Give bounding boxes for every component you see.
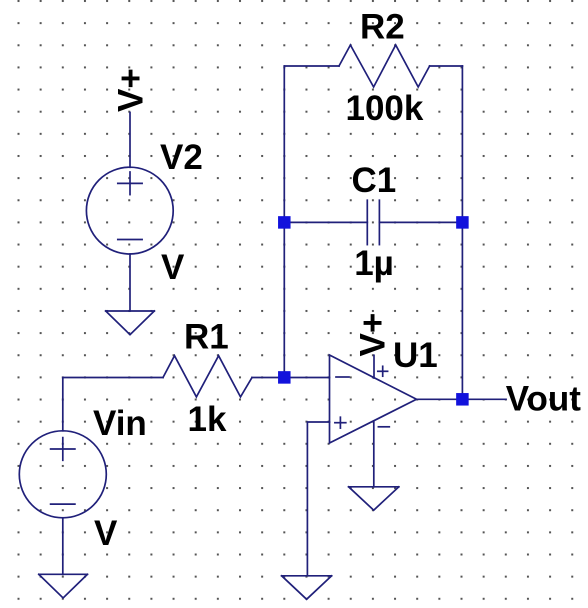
svg-text:R2: R2 xyxy=(360,8,405,47)
svg-text:U1: U1 xyxy=(393,336,438,375)
voltage source V2 xyxy=(86,113,173,255)
V+ supply stub xyxy=(373,355,375,378)
junction node C1 right xyxy=(456,216,469,229)
junction node C1 left xyxy=(278,216,291,229)
Vin minus marker xyxy=(51,503,75,505)
svg-text:V+: V+ xyxy=(354,313,393,357)
svg-text:100k: 100k xyxy=(346,89,424,128)
V2 plus marker xyxy=(129,172,131,195)
resistor R1 xyxy=(163,356,252,397)
junction node R1/feedback xyxy=(278,371,291,384)
wire op-amp + input xyxy=(307,422,329,576)
svg-text:Vin: Vin xyxy=(93,404,147,443)
wire V2 bottom to ground xyxy=(129,254,131,311)
wire op-amp output to Vout xyxy=(417,398,507,400)
capacitor C1 xyxy=(284,200,462,244)
op-amp U1 xyxy=(330,355,417,487)
svg-text:R1: R1 xyxy=(184,317,229,356)
svg-text:V+: V+ xyxy=(112,68,151,112)
resistor R2 xyxy=(284,45,462,87)
wire Vin top to R1 xyxy=(63,378,163,431)
V- supply stub xyxy=(373,421,375,487)
svg-text:1µ: 1µ xyxy=(354,244,394,283)
non-inverting input marker xyxy=(339,417,341,428)
Vin circle xyxy=(19,431,106,518)
ground under Vin xyxy=(39,574,88,598)
voltage source Vin xyxy=(19,431,106,518)
V2 minus marker xyxy=(118,239,142,241)
svg-text:Vout: Vout xyxy=(506,380,582,419)
svg-text:C1: C1 xyxy=(352,161,397,200)
svg-text:V2: V2 xyxy=(160,138,203,177)
svg-text:V: V xyxy=(94,514,118,553)
inverting input marker xyxy=(336,376,349,378)
ground under + input wire xyxy=(282,576,332,600)
wire left feedback branch vertical xyxy=(283,66,285,378)
ground under V2 xyxy=(106,311,155,335)
V- pin minus marker xyxy=(378,426,389,428)
svg-text:V: V xyxy=(161,248,185,287)
wire Vin bottom to ground xyxy=(62,518,64,575)
Vin plus marker xyxy=(62,438,64,461)
wire R1 to op-amp inverting input xyxy=(252,377,330,379)
ground under op-amp V- xyxy=(349,487,399,510)
wire V+ stub to V2 top xyxy=(129,113,131,168)
svg-text:1k: 1k xyxy=(188,400,227,439)
junction node output xyxy=(456,393,469,406)
V+ pin plus marker xyxy=(382,366,384,376)
V2 circle xyxy=(86,167,173,254)
wire right feedback branch vertical xyxy=(461,66,463,399)
